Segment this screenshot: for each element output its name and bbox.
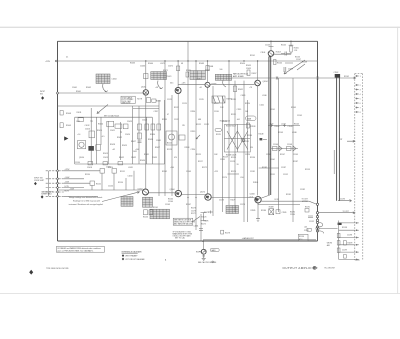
svg-text:C1061: C1061 [72, 87, 77, 89]
CRT dashed column bottom [355, 259, 360, 261]
svg-text:C1181: C1181 [250, 171, 255, 173]
svg-text:R1108: R1108 [302, 62, 307, 64]
resistor R1037 [151, 124, 155, 130]
bridge diamond network [224, 124, 250, 152]
svg-text:C1023: C1023 [127, 121, 132, 123]
wire input bus y93 [58, 92, 144, 94]
svg-text:R1120: R1120 [245, 103, 250, 105]
svg-text:C1124: C1124 [245, 154, 250, 156]
svg-text:1011: 1011 [76, 121, 80, 123]
svg-text:R1062: R1062 [86, 87, 91, 89]
wire Q1054 collector right [274, 53, 291, 55]
wire main frame right border [317, 41, 319, 241]
transistor Q1054 [268, 51, 274, 57]
resistor L1084 on collector [206, 66, 209, 71]
svg-text:C1152: C1152 [283, 174, 288, 176]
svg-text:C1176: C1176 [191, 210, 196, 212]
resistor R1178 [221, 230, 224, 234]
wire main frame left border [57, 41, 59, 241]
svg-text:+1.6: +1.6 [77, 134, 80, 136]
label box GAIN ADJ [210, 248, 219, 251]
wire leader from chart1 [103, 84, 108, 92]
svg-text:TO CRT: TO CRT [343, 211, 349, 213]
svg-text:C1111: C1111 [167, 99, 172, 101]
svg-text:C1103: C1103 [265, 45, 270, 47]
svg-text:C1099: C1099 [288, 69, 293, 71]
svg-text:8: 8 [360, 112, 361, 114]
svg-text:R1115: R1115 [191, 131, 196, 133]
svg-text:C1107: C1107 [296, 59, 301, 61]
svg-text:R1186: R1186 [261, 210, 266, 212]
svg-text:+61: +61 [199, 87, 202, 89]
wire col x293 [292, 78, 294, 222]
svg-text:C1063: C1063 [140, 66, 145, 68]
svg-text:R1133: R1133 [251, 126, 256, 128]
svg-text:R1014: R1014 [98, 124, 103, 126]
svg-text:R1036: R1036 [148, 139, 153, 141]
diode pair 2 [287, 147, 292, 151]
svg-text:Q1014: Q1014 [79, 157, 84, 159]
svg-text:R1154: R1154 [118, 182, 123, 184]
boxed transistor Q1123 [166, 131, 177, 145]
wire diagonal arrow [284, 60, 305, 74]
wire stub x334 [333, 150, 335, 174]
wire col x172 [171, 95, 173, 196]
wire col x278.7 [278, 78, 280, 212]
svg-text:R1126 R1127: R1126 R1127 [226, 126, 236, 128]
resistor on border R1009 [60, 123, 63, 128]
svg-text:L1031: L1031 [128, 167, 133, 169]
svg-text:R1103: R1103 [276, 51, 281, 53]
transistor Q1174 [205, 194, 211, 200]
svg-text:R1136: R1136 [250, 157, 255, 159]
wire inner bottom [75, 163, 165, 165]
svg-text:C1174: C1174 [222, 177, 227, 179]
svg-text:CRT CIRCUIT DIAGRAM: CRT CIRCUIT DIAGRAM [125, 258, 145, 261]
wire main frame top border [58, 40, 318, 42]
svg-text:33: 33 [237, 164, 239, 166]
svg-text:C1153: C1153 [128, 176, 133, 178]
boxed note bottom-left [56, 246, 104, 252]
diode pair 1 [273, 147, 278, 151]
wire y78 tick into box [354, 77, 356, 79]
svg-text:C1149: C1149 [293, 154, 298, 156]
svg-text:R1064: R1064 [148, 63, 153, 65]
svg-text:C1147: C1147 [266, 154, 271, 156]
svg-text:DLYD: DLYD [275, 199, 280, 201]
svg-text:R1181: R1181 [286, 194, 291, 196]
svg-text:C1163: C1163 [165, 204, 170, 206]
wire delay line bottom L [338, 199, 352, 202]
resistor R1156 [144, 210, 148, 215]
svg-text:R1029: R1029 [122, 145, 127, 147]
svg-text:1: 1 [360, 76, 361, 78]
transistor Q1044 [255, 80, 261, 86]
svg-text:C1190: C1190 [290, 214, 295, 216]
wire inner box top [75, 116, 153, 118]
connector pin column x317.5 [316, 203, 318, 232]
svg-text:R1011: R1011 [77, 112, 82, 114]
potentiometer GAIN ADJ [201, 249, 206, 254]
svg-text:C1095: C1095 [246, 68, 251, 70]
svg-text:R1113: R1113 [167, 149, 172, 151]
wire left lower stubs [64, 171, 100, 188]
resistor R1023 [107, 121, 114, 127]
svg-text:R1172: R1172 [202, 167, 207, 169]
table voltage chart 2 [151, 72, 167, 80]
svg-text:C1115: C1115 [199, 99, 204, 101]
svg-text:R1118: R1118 [162, 119, 167, 121]
svg-text:470: 470 [174, 157, 177, 159]
svg-text:C1012: C1012 [85, 125, 90, 127]
svg-text:C1112: C1112 [174, 119, 179, 121]
svg-text:C1024: C1024 [125, 134, 130, 136]
components under Q1184 [257, 202, 259, 219]
svg-text:R1027: R1027 [131, 141, 136, 143]
svg-text:R1105: R1105 [281, 45, 286, 47]
svg-text:R1019: R1019 [103, 153, 108, 155]
svg-text:R1121: R1121 [231, 114, 236, 116]
svg-text:L1144: L1144 [270, 159, 275, 161]
svg-text:C1163: C1163 [186, 171, 191, 173]
wire to CRT upper plate [258, 201, 316, 204]
svg-text:R1199: R1199 [348, 243, 353, 245]
delay line termination box [212, 96, 225, 103]
components left of pins [305, 209, 309, 213]
table voltage chart 3 [215, 74, 231, 80]
svg-text:C1019: C1019 [103, 157, 108, 159]
svg-text:R1022: R1022 [117, 137, 122, 139]
wire entries bracket [47, 171, 49, 197]
svg-text:4: 4 [360, 94, 361, 96]
wire Q1094 collector [257, 61, 259, 80]
svg-text:R1142: R1142 [275, 126, 280, 128]
wire col x165 [164, 61, 166, 196]
potentiometer R1025 [138, 124, 142, 130]
svg-text:.001: .001 [304, 227, 307, 229]
resistor R1104 [274, 60, 277, 65]
svg-text:R1112: R1112 [174, 107, 179, 109]
svg-text:+225V: +225V [45, 61, 51, 63]
wire y148.5 clamp row [271, 148, 298, 150]
svg-text:7: 7 [360, 107, 361, 109]
svg-text:+62: +62 [112, 149, 115, 151]
resistor R1026 [123, 124, 128, 129]
svg-text:R1123: R1123 [231, 157, 236, 159]
page edge bottom band [0, 292, 400, 295]
wire lower row bus y197.5 [148, 193, 254, 198]
wire y168 link [259, 167, 279, 169]
svg-text:R1095: R1095 [246, 65, 251, 67]
wire entry -150V b [46, 187, 64, 189]
wire gain adjust line [203, 239, 316, 241]
wire col x188 [187, 41, 189, 222]
wire Q1054 collector T-bar [269, 41, 274, 50]
svg-text:R1174: R1174 [196, 251, 201, 253]
resistor R1124 [179, 135, 185, 140]
resistor R1192 [307, 228, 311, 231]
resistor R1066 [147, 98, 151, 103]
bracket R1175 [201, 213, 207, 221]
svg-text:C1141: C1141 [270, 109, 275, 111]
svg-text:SET TO CAL: SET TO CAL [175, 236, 185, 239]
node X junction y78 [276, 77, 278, 80]
ground under Q1184 [256, 219, 260, 222]
wire output ticks to CRT [339, 223, 355, 260]
svg-text:C1193: C1193 [340, 199, 345, 201]
capacitor C1048 [284, 63, 293, 72]
svg-text:instrument. Waveforms with no: instrument. Waveforms with no signal app… [69, 203, 104, 206]
junction dots on buses [145, 41, 292, 199]
component value labels top band [66, 45, 307, 114]
svg-text:R1032: R1032 [119, 157, 124, 159]
svg-text:C1091: C1091 [241, 95, 246, 97]
svg-text:R1104: R1104 [277, 63, 282, 65]
svg-text:-0.5: -0.5 [102, 136, 105, 138]
component cluster K around x190 y72-80 [186, 72, 189, 77]
svg-text:L1071: L1071 [160, 63, 165, 65]
wire inner extra verticals [101, 117, 121, 160]
svg-text:L1082: L1082 [196, 79, 201, 81]
wire inner mid [83, 105, 159, 107]
note block upper-left of Q1064 [121, 96, 135, 103]
svg-text:R1150: R1150 [85, 174, 90, 176]
svg-text:R1124: R1124 [185, 147, 190, 149]
svg-text:R1189: R1189 [269, 207, 274, 209]
svg-text:C1074: C1074 [166, 76, 171, 78]
svg-text:L1146: L1146 [292, 132, 297, 134]
svg-text:2: 2 [360, 85, 361, 87]
potentiometer R1148 wiper blob [260, 138, 263, 140]
svg-text:R1178: R1178 [225, 233, 230, 235]
boxed note lower-right [298, 234, 308, 241]
wire col x213 [212, 86, 214, 216]
diamond page ref bottom-left [29, 270, 33, 275]
svg-text:C1119: C1119 [237, 109, 242, 111]
svg-text:R1134: R1134 [247, 135, 252, 137]
svg-text:C1114: C1114 [191, 149, 196, 151]
svg-text:C1154: C1154 [108, 186, 113, 188]
svg-text:C1142: C1142 [269, 124, 274, 126]
wire entry +225V [46, 170, 64, 172]
node arrow on border [64, 136, 68, 140]
svg-text:68: 68 [181, 63, 183, 65]
svg-text:+225: +225 [214, 171, 218, 173]
additional value labels [155, 87, 298, 179]
svg-text:R1175: R1175 [201, 224, 206, 226]
svg-text:R1153: R1153 [305, 169, 310, 171]
svg-text:TP1: TP1 [90, 121, 93, 123]
svg-text:SEE CAL PROCEDURE: SEE CAL PROCEDURE [198, 261, 217, 264]
wire entry +100V [46, 178, 64, 180]
svg-text:C1189: C1189 [282, 212, 287, 214]
resistor R1105 [290, 46, 292, 52]
wire +225V bus [56, 60, 317, 62]
svg-text:R1156: R1156 [143, 217, 148, 219]
svg-text:Voltage readings were obtained: Voltage readings were obtained with cont… [69, 196, 103, 199]
svg-text:SET DC BAL R1021: SET DC BAL R1021 [104, 115, 119, 118]
svg-text:C1123: C1123 [222, 121, 227, 123]
wire col x235 [234, 81, 236, 212]
svg-text:R1144: R1144 [294, 124, 299, 126]
svg-text:.001: .001 [237, 119, 240, 121]
svg-text:R1185: R1185 [251, 210, 256, 212]
svg-text:C1118: C1118 [220, 159, 225, 161]
resistor L1074 on collector [176, 66, 179, 71]
svg-text:1031: 1031 [133, 151, 137, 153]
svg-text:C1035: C1035 [152, 157, 157, 159]
wire y174 link [228, 173, 240, 175]
wire col x207.5 [207, 87, 209, 194]
wire col x148 upper [145, 95, 147, 189]
wire y212.7 to CRT box [319, 212, 355, 214]
components below control [247, 123, 250, 128]
svg-text:C1198: C1198 [347, 235, 352, 237]
svg-text:C1145: C1145 [297, 115, 302, 117]
svg-text:C1161: C1161 [194, 225, 199, 227]
svg-text:C1199: C1199 [342, 250, 347, 252]
wire y78 bus to delay line [232, 77, 354, 79]
delay line top cap [335, 74, 340, 78]
svg-text:Q1094: Q1094 [263, 81, 268, 83]
svg-text:R1117: R1117 [198, 161, 203, 163]
resistor R1036 [145, 124, 149, 130]
svg-text:C1113: C1113 [182, 103, 187, 105]
svg-text:47: 47 [167, 114, 169, 116]
wire leader arrow into amp block [97, 105, 108, 114]
wire col x196 [195, 61, 197, 230]
svg-text:RC JUN 1967: RC JUN 1967 [325, 268, 335, 270]
wire delay line pair [337, 77, 340, 201]
svg-text:B1121: B1121 [167, 143, 172, 145]
CRT neck pin ticks top [355, 75, 358, 112]
svg-text:C1018: C1018 [87, 167, 92, 169]
svg-text:C1032: C1032 [131, 157, 136, 159]
svg-text:120: 120 [250, 147, 253, 149]
capacitor C1195 dark [338, 223, 342, 225]
transistor Q1184 [255, 197, 261, 203]
svg-text:C1178: C1178 [240, 204, 245, 206]
svg-text:L1143: L1143 [281, 124, 286, 126]
svg-text:R1148: R1148 [259, 134, 264, 136]
svg-text:R1114: R1114 [191, 111, 196, 113]
ground under pot [202, 254, 206, 261]
svg-text:C1016: C1016 [85, 129, 90, 131]
svg-text:C1143: C1143 [288, 126, 293, 128]
svg-text:C1187: C1187 [281, 167, 286, 169]
CRT neck pin ticks bottom [355, 222, 358, 260]
table voltage chart 2b [190, 71, 205, 80]
svg-text:L1140: L1140 [262, 95, 267, 97]
wire leader from chart2 [158, 81, 163, 89]
wire output network spine [338, 221, 340, 260]
svg-text:AMPL BOARD: AMPL BOARD [233, 75, 245, 78]
resistor R1012 [78, 118, 84, 122]
svg-text:R1083: R1083 [205, 70, 210, 72]
svg-text:R1177: R1177 [191, 213, 196, 215]
svg-text:C1064: C1064 [112, 79, 117, 81]
svg-text:C1146: C1146 [273, 144, 278, 146]
component value labels lower band [75, 120, 310, 207]
svg-text:R1187: R1187 [293, 161, 298, 163]
svg-text:R1101: R1101 [250, 55, 255, 57]
svg-text:C1072: C1072 [168, 66, 173, 68]
svg-text:R1151: R1151 [120, 171, 125, 173]
table resistance chart lower-left [121, 197, 133, 207]
svg-text:C1116: C1116 [214, 111, 219, 113]
svg-text:R1167: R1167 [186, 204, 191, 206]
resistor R1018 dark [88, 146, 94, 151]
transistor Q1154 [143, 189, 149, 195]
svg-text:5: 5 [360, 98, 361, 100]
component value labels mid band [154, 95, 302, 163]
page edge top band [0, 27, 400, 28]
svg-text:C1182: C1182 [300, 189, 305, 191]
svg-text:C1122: C1122 [204, 124, 209, 126]
svg-text:R1196: R1196 [299, 236, 304, 238]
transistor Q1074 [175, 88, 181, 94]
svg-text:R1176: R1176 [191, 208, 196, 210]
resistor R1033 [138, 133, 142, 139]
node diamond input ref [41, 96, 44, 100]
svg-text:C1148: C1148 [287, 144, 292, 146]
svg-text:R1030: R1030 [150, 134, 155, 136]
svg-text:ADJ: ADJ [299, 238, 302, 241]
svg-text:R1097: R1097 [252, 73, 257, 75]
wire leader from chart3 [223, 81, 226, 88]
node diamond ref3 [41, 195, 44, 198]
svg-text:3: 3 [360, 89, 361, 91]
wire Q1064 collector [145, 61, 147, 90]
svg-text:R1161: R1161 [153, 207, 158, 209]
wire col x258.7 upper [257, 86, 259, 196]
wire col x222.5 [222, 96, 224, 212]
svg-text:R1191: R1191 [305, 206, 310, 208]
wire col x229 [228, 61, 230, 205]
svg-text:R1071: R1071 [163, 70, 168, 72]
resistor on border R1008 [60, 111, 63, 116]
CRT dashed column right edge [362, 74, 364, 261]
svg-text:C1021: C1021 [110, 130, 115, 132]
labels inner extra [77, 121, 149, 156]
svg-text:TYPE 545B OSCILLOSCOPE: TYPE 545B OSCILLOSCOPE [46, 268, 69, 270]
wire leader to Q1154 [102, 192, 140, 202]
svg-text:R1198: R1198 [342, 227, 347, 229]
capacitor C1033 [138, 141, 142, 143]
svg-text:+100: +100 [170, 167, 174, 169]
wire leader to R1175 [192, 217, 200, 223]
svg-text:C1164: C1164 [168, 201, 173, 203]
svg-text:R1119: R1119 [216, 134, 221, 136]
svg-text:C1173: C1173 [219, 200, 224, 202]
svg-text:R1091: R1091 [238, 89, 243, 91]
svg-text:W1131: W1131 [244, 141, 249, 143]
node junction x317.5 y228.5 [316, 227, 319, 230]
svg-text:C1025: C1025 [142, 120, 147, 122]
svg-text:+225V: +225V [65, 169, 71, 171]
svg-text:R1152: R1152 [96, 184, 101, 186]
wire entry gnd [46, 191, 64, 193]
wire stub verticals lower-left [92, 171, 134, 190]
wire pin loop [319, 223, 324, 234]
wire col x179.5 [177, 93, 179, 191]
svg-text:R1031: R1031 [144, 154, 149, 156]
node diagram number symbol [313, 266, 316, 269]
svg-text:R1145: R1145 [291, 107, 296, 109]
resistor R1024 [115, 124, 122, 128]
wire entry mag [46, 195, 64, 197]
svg-text:R1151: R1151 [270, 174, 275, 176]
